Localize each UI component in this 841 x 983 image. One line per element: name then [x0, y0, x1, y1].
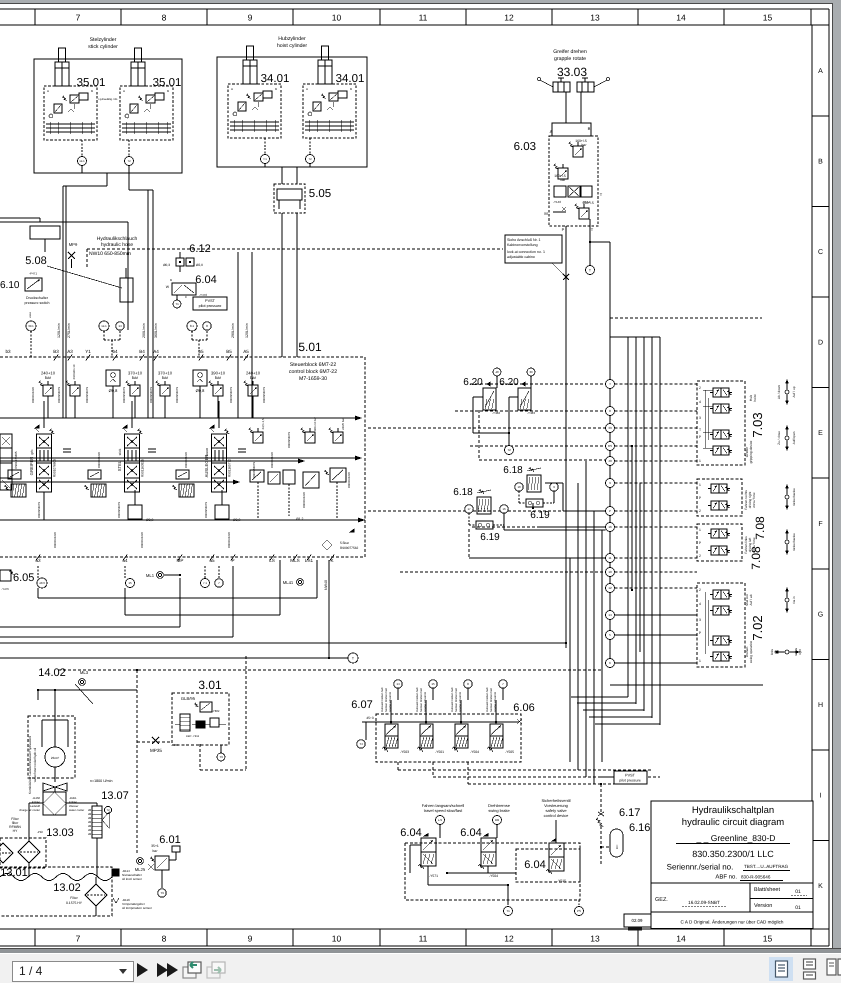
svg-text:7.08: 7.08	[753, 516, 767, 540]
svg-text:B: B	[275, 87, 277, 91]
svg-text:rückw./backw.: rückw./backw.	[792, 533, 796, 552]
svg-text:Greifer schwimm: Greifer schwimm	[424, 691, 427, 712]
svg-text:water/intercooler/hydr.oil: water/intercooler/hydr.oil	[33, 747, 37, 782]
svg-text:-Y505: -Y505	[505, 750, 514, 754]
svg-text:23cm³: 23cm³	[51, 756, 59, 760]
svg-text:200L/min: 200L/min	[142, 323, 146, 338]
svg-text:R900958079: R900958079	[204, 502, 208, 518]
svg-text:7: 7	[76, 13, 81, 23]
svg-text:13.02: 13.02	[53, 882, 81, 894]
svg-text:Filter: Filter	[70, 896, 78, 900]
svg-text:8: 8	[162, 13, 167, 23]
svg-text:Greifer schwimm: Greifer schwimm	[389, 691, 392, 712]
svg-text:T9: T9	[160, 891, 164, 895]
svg-text:T2: T2	[308, 157, 312, 161]
svg-text:T2: T2	[106, 808, 110, 812]
svg-text:Seriennr./serial no.: Seriennr./serial no.	[667, 863, 734, 872]
svg-text:160+/-5: 160+/-5	[582, 201, 594, 205]
svg-text:Senken Drehen halt: Senken Drehen halt	[455, 688, 458, 712]
svg-text:310/340+10: 310/340+10	[72, 364, 76, 379]
svg-text:14: 14	[676, 934, 686, 944]
svg-text:15: 15	[128, 581, 132, 585]
svg-text:6.03: 6.03	[514, 141, 536, 153]
svg-text:grapple rotate: grapple rotate	[554, 56, 586, 62]
svg-text:R900958079: R900958079	[262, 387, 266, 403]
svg-text:R900063245: R900063245	[53, 532, 57, 548]
svg-text:R900063245: R900063245	[97, 452, 101, 468]
svg-text:14: 14	[676, 13, 686, 23]
svg-text:B: B	[91, 89, 93, 93]
svg-text:39: 39	[529, 370, 533, 374]
svg-text:7.08: 7.08	[749, 546, 763, 570]
svg-text:PS: PS	[577, 909, 581, 913]
svg-text:R900077562: R900077562	[340, 546, 358, 550]
svg-text:5.01: 5.01	[298, 340, 322, 354]
svg-text:17: 17	[467, 507, 471, 511]
svg-text:C: C	[818, 249, 823, 256]
svg-text:-Y476: -Y476	[199, 293, 207, 297]
svg-text:bar: bar	[561, 178, 567, 182]
svg-text:01: 01	[795, 889, 801, 895]
svg-text:swing brake: swing brake	[488, 808, 510, 813]
svg-text:-Y503: -Y503	[400, 750, 409, 754]
svg-text:R900958079: R900958079	[117, 502, 121, 518]
svg-text:7.03: 7.03	[750, 412, 765, 437]
svg-text:7.02: 7.02	[750, 615, 765, 640]
svg-text:hoist cylinder: hoist cylinder	[277, 43, 308, 49]
svg-text:A: A	[818, 68, 823, 75]
svg-text:R900063245: R900063245	[227, 532, 231, 548]
svg-text:_ _ Greenline_830-D: _ _ Greenline_830-D	[696, 833, 776, 843]
svg-text:DB: DB	[495, 818, 499, 822]
svg-text:T: T	[609, 382, 611, 386]
svg-text:Hubwerk Heben halt: Hubwerk Heben halt	[451, 687, 454, 712]
svg-text:PVST: PVST	[205, 299, 216, 303]
svg-text:R900063245: R900063245	[347, 472, 351, 488]
svg-text:GREIFER: GREIFER	[29, 457, 34, 476]
svg-text:bar: bar	[132, 375, 139, 380]
svg-text:Kombikühler Ladeluft/Wasser/H: Kombikühler Ladeluft/Wasser/Hydrauliköl	[28, 736, 32, 794]
svg-text:LS1: LS1	[305, 558, 314, 563]
svg-text:15: 15	[431, 682, 435, 686]
svg-text:MP: MP	[177, 558, 184, 563]
svg-text:4: 4	[699, 602, 701, 606]
svg-text:oil level sensor: oil level sensor	[122, 877, 142, 881]
svg-text:pilot pressure: pilot pressure	[619, 779, 641, 783]
svg-text:-Y501: -Y501	[435, 750, 444, 754]
svg-text:6.20: 6.20	[499, 377, 519, 388]
svg-text:6.18: 6.18	[503, 465, 523, 476]
svg-text:Ø1,2: Ø1,2	[296, 517, 303, 521]
svg-text:E: E	[818, 430, 823, 437]
svg-text:Ø2,0: Ø2,0	[196, 263, 203, 267]
svg-text:Ab / down: Ab / down	[777, 385, 781, 399]
svg-text:Greifer schwimm: Greifer schwimm	[494, 691, 497, 712]
svg-text:TBST....U..AUFTRAG: TBST....U..AUFTRAG	[744, 864, 789, 869]
svg-text:R900958079: R900958079	[37, 502, 41, 518]
svg-text:Version: Version	[754, 903, 772, 909]
svg-text:35+1: 35+1	[151, 844, 159, 848]
svg-text:control device: control device	[544, 813, 569, 818]
svg-text:L-S: L-S	[438, 818, 442, 822]
svg-text:16.02.09-SNBT: 16.02.09-SNBT	[688, 900, 720, 905]
svg-text:5.5bar: 5.5bar	[340, 541, 350, 545]
svg-text:Y1: Y1	[85, 349, 91, 354]
svg-text:380+10 bar: 380+10 bar	[313, 417, 317, 431]
svg-text:2: 2	[699, 554, 701, 558]
svg-text:ML25: ML25	[135, 867, 146, 872]
svg-text:Kabinenverstellung: Kabinenverstellung	[507, 243, 538, 247]
svg-text:n=1800 U/min: n=1800 U/min	[90, 779, 112, 783]
svg-text:Da in: Da in	[792, 596, 796, 603]
svg-text:Druckschalter: Druckschalter	[26, 296, 49, 300]
svg-text:13: 13	[590, 13, 600, 23]
svg-text:11: 11	[419, 934, 428, 944]
svg-text:39: 39	[608, 426, 612, 430]
svg-text:6.16: 6.16	[629, 822, 650, 834]
svg-text:R900958079: R900958079	[229, 387, 233, 403]
svg-text:9: 9	[248, 934, 253, 944]
svg-text:40: 40	[608, 459, 612, 463]
svg-text:Senken Drehen halt: Senken Drehen halt	[385, 688, 388, 712]
svg-text:14.02: 14.02	[38, 667, 66, 679]
svg-text:grb: grb	[30, 449, 34, 454]
svg-text:Ø0,8: Ø0,8	[146, 518, 153, 522]
svg-text:120L/min: 120L/min	[57, 323, 61, 338]
svg-text:830.350.2300/1 LLC: 830.350.2300/1 LLC	[692, 849, 774, 859]
svg-text:F: F	[818, 521, 822, 528]
svg-text:14: 14	[608, 613, 612, 617]
svg-text:PVST: PVST	[625, 774, 636, 778]
svg-text:Auf / up: Auf / up	[792, 386, 796, 397]
svg-text:-P471: -P471	[29, 272, 37, 276]
svg-text:13.03: 13.03	[46, 827, 74, 839]
svg-text:R901165772: R901165772	[228, 459, 232, 477]
svg-text:Hydraulikschaltplan: Hydraulikschaltplan	[692, 805, 774, 816]
svg-text:A3: A3	[67, 349, 73, 354]
svg-text:RS: RS	[608, 444, 612, 448]
svg-text:vorw./ forw.: vorw./ forw.	[752, 492, 756, 508]
svg-text:-Y571: -Y571	[429, 874, 438, 878]
svg-text:Siehe Anschluß Nr. 1: Siehe Anschluß Nr. 1	[507, 238, 541, 242]
svg-text:B: B	[167, 89, 169, 93]
svg-text:275L/min: 275L/min	[67, 323, 71, 338]
svg-text:T9: T9	[219, 755, 223, 759]
svg-text:34.01: 34.01	[261, 73, 290, 85]
svg-text:ML41: ML41	[283, 580, 294, 585]
svg-text:33.03: 33.03	[557, 65, 587, 79]
svg-text:6.04: 6.04	[460, 827, 481, 839]
svg-text:10 l: 10 l	[615, 844, 619, 849]
svg-text:R901076805: R901076805	[53, 459, 57, 477]
svg-text:1: 1	[699, 459, 701, 463]
svg-text:8: 8	[162, 934, 167, 944]
svg-text:rückw./backw.: rückw./backw.	[792, 488, 796, 507]
svg-text:T1: T1	[175, 302, 179, 306]
svg-text:Ø0,3: Ø0,3	[163, 263, 170, 267]
svg-text:gripping device: gripping device	[749, 440, 753, 463]
svg-text:7.1: 7.1	[203, 581, 207, 585]
svg-text:T: T	[699, 428, 701, 432]
svg-text:14: 14	[396, 682, 400, 686]
svg-text:pressure switch: pressure switch	[25, 301, 50, 305]
svg-text:6.06: 6.06	[513, 702, 534, 714]
svg-text:-Y483: -Y483	[527, 411, 535, 415]
svg-text:16: 16	[502, 507, 506, 511]
svg-text:GLB/95: GLB/95	[181, 696, 196, 701]
svg-text:15: 15	[763, 13, 773, 23]
svg-text:AUSLEGER: AUSLEGER	[204, 455, 209, 478]
svg-text:GEZ.: GEZ.	[655, 897, 668, 903]
svg-text:K: K	[818, 883, 823, 890]
svg-text:40: 40	[495, 370, 499, 374]
svg-text:MLS: MLS	[290, 558, 299, 563]
svg-text:6.01: 6.01	[159, 834, 180, 846]
svg-text:B5: B5	[226, 349, 232, 354]
svg-text:STEL: STEL	[117, 460, 122, 471]
svg-text:3: 3	[699, 416, 701, 420]
svg-text:R900958079: R900958079	[149, 387, 153, 403]
svg-text:A5: A5	[243, 349, 249, 354]
svg-text:boom: boom	[205, 448, 209, 457]
svg-text:R900063245: R900063245	[140, 532, 144, 548]
svg-text:290L/min: 290L/min	[231, 323, 235, 338]
svg-text:45+3: 45+3	[366, 716, 373, 720]
svg-text:B: B	[350, 87, 352, 91]
svg-text:DBC -Y804: DBC -Y804	[186, 735, 200, 738]
svg-text:Auf / ab: Auf / ab	[749, 594, 753, 605]
svg-text:A: A	[231, 87, 233, 91]
svg-text:6.04: 6.04	[195, 274, 216, 286]
svg-text:H: H	[818, 702, 823, 709]
svg-text:11: 11	[419, 13, 428, 23]
svg-text:b3: b3	[5, 349, 11, 354]
svg-text:hoist: hoist	[753, 394, 757, 401]
svg-text:R900063245: R900063245	[302, 492, 306, 508]
svg-text:bar: bar	[162, 375, 169, 380]
svg-text:-Y482: -Y482	[492, 411, 500, 415]
svg-text:13: 13	[590, 934, 600, 944]
svg-text:A: A	[47, 89, 49, 93]
svg-text:A: A	[123, 89, 125, 93]
svg-text:Greifer schwimm: Greifer schwimm	[459, 691, 462, 712]
svg-text:02.09: 02.09	[632, 918, 644, 923]
svg-text:MP9: MP9	[69, 242, 78, 247]
svg-text:2: 2	[699, 588, 701, 592]
svg-text:6.05: 6.05	[13, 572, 34, 584]
svg-text:Steuerblock 6M7-22: Steuerblock 6M7-22	[290, 362, 337, 368]
svg-text:pilot pressure: pilot pressure	[199, 304, 222, 308]
svg-text:3.01: 3.01	[198, 678, 222, 692]
svg-text:-Y504: -Y504	[470, 750, 479, 754]
svg-text:B4: B4	[139, 349, 145, 354]
svg-text:35.01: 35.01	[77, 77, 106, 89]
svg-text:Stelzylinder: Stelzylinder	[90, 37, 117, 43]
svg-text:HY: HY	[13, 829, 18, 833]
svg-text:ML3: ML3	[80, 670, 89, 675]
svg-text:Auf/open: Auf/open	[792, 431, 796, 444]
svg-text:R900063245: R900063245	[270, 452, 274, 468]
svg-text:Senken Drehen halt: Senken Drehen halt	[420, 688, 423, 712]
svg-text:14.1: 14.1	[79, 159, 85, 163]
svg-text:R900958079: R900958079	[85, 387, 89, 403]
svg-text:6.19: 6.19	[480, 532, 500, 543]
svg-text:Ø0,8: Ø0,8	[233, 518, 240, 522]
svg-text:B: B	[588, 126, 591, 131]
svg-text:13.07: 13.07	[101, 790, 129, 802]
svg-text:Hubwerk Heben halt: Hubwerk Heben halt	[486, 687, 489, 712]
svg-text:-Y476: -Y476	[1, 587, 9, 591]
svg-text:D: D	[818, 340, 823, 347]
svg-text:valve: valve	[29, 311, 32, 318]
svg-text:6.10: 6.10	[0, 280, 20, 291]
svg-text:R900958079: R900958079	[175, 387, 179, 403]
svg-text:swing operation: swing operation	[749, 641, 753, 664]
svg-text:R901163825: R901163825	[141, 459, 145, 477]
svg-text:water cooler: water cooler	[69, 808, 84, 812]
svg-text:10: 10	[608, 570, 612, 574]
svg-text:Hubwerk Heben halt: Hubwerk Heben halt	[381, 687, 384, 712]
svg-text:2: 2	[699, 386, 701, 390]
svg-text:1: 1	[699, 659, 701, 663]
svg-text:A: A	[550, 129, 553, 134]
svg-text:14.1: 14.1	[101, 324, 107, 328]
svg-text:01: 01	[795, 905, 801, 911]
svg-text:bar: bar	[215, 375, 222, 380]
svg-text:b4: b4	[112, 349, 118, 354]
svg-text:T1: T1	[506, 909, 510, 913]
svg-text:bar: bar	[153, 849, 159, 853]
svg-text:6.04: 6.04	[400, 827, 421, 839]
svg-text:7: 7	[76, 934, 81, 944]
svg-text:5.05: 5.05	[309, 188, 331, 200]
svg-text:R900063245: R900063245	[184, 452, 188, 468]
svg-text:6.18: 6.18	[453, 487, 473, 498]
svg-text:ABF no.: ABF no.	[715, 874, 737, 881]
svg-text:11: 11	[608, 556, 611, 560]
svg-text:40.3: 40.3	[39, 581, 45, 585]
svg-text:B: B	[170, 278, 172, 282]
svg-text:MP35: MP35	[150, 748, 162, 753]
svg-text:1: 1	[699, 483, 701, 487]
svg-text:14: 14	[118, 324, 122, 328]
svg-text:16: 16	[608, 525, 612, 529]
svg-text:R900958079: R900958079	[57, 387, 61, 403]
svg-text:P: P	[609, 509, 611, 513]
svg-text:4: 4	[699, 400, 701, 404]
svg-text:15: 15	[763, 934, 773, 944]
svg-text:Blatt/sheet: Blatt/sheet	[754, 887, 780, 893]
svg-text:12: 12	[608, 586, 612, 590]
svg-text:6.17: 6.17	[619, 807, 640, 819]
svg-text:3: 3	[699, 618, 701, 622]
svg-text:360L/min: 360L/min	[154, 323, 158, 338]
svg-text:R900958079: R900958079	[122, 387, 126, 403]
svg-text:bar: bar	[250, 375, 257, 380]
svg-text:5.08: 5.08	[25, 255, 46, 267]
svg-text:-Y802: -Y802	[212, 709, 220, 713]
svg-text:P: P	[562, 227, 565, 232]
svg-text:0.1575 HY: 0.1575 HY	[66, 901, 83, 905]
svg-text:10: 10	[332, 934, 342, 944]
svg-text:b5: b5	[198, 349, 204, 354]
svg-text:10: 10	[517, 485, 521, 489]
svg-text:stick cylinder: stick cylinder	[88, 44, 118, 50]
svg-text:bar: bar	[45, 375, 52, 380]
svg-text:T.1: T.1	[263, 157, 267, 161]
svg-text:6.12: 6.12	[189, 243, 210, 255]
svg-text:-Y515: -Y515	[557, 879, 566, 883]
svg-text:34.01: 34.01	[336, 73, 365, 85]
svg-text:M7-1659-30: M7-1659-30	[299, 376, 327, 382]
svg-text:oil temperature sensor: oil temperature sensor	[122, 906, 152, 910]
svg-text:adjustable cabine: adjustable cabine	[507, 255, 535, 259]
svg-text:T2: T2	[507, 448, 511, 452]
svg-text:Hubwerk Heben halt: Hubwerk Heben halt	[416, 687, 419, 712]
svg-text:6.04: 6.04	[524, 859, 545, 871]
svg-text:C A D Original. Änderungen: C A D Original. Änderungen nur über CAD …	[681, 920, 784, 925]
svg-text:120L/min: 120L/min	[245, 323, 249, 338]
svg-text:T4: T4	[359, 742, 363, 746]
svg-text:12: 12	[504, 934, 514, 944]
svg-text:I: I	[820, 792, 822, 799]
svg-text:9: 9	[248, 13, 253, 23]
svg-text:A: A	[306, 87, 308, 91]
svg-text:8.1: 8.1	[190, 324, 195, 328]
svg-text:240/5 bar: 240/5 bar	[341, 418, 345, 430]
svg-text:hydraulic circuit diagram: hydraulic circuit diagram	[682, 817, 785, 828]
svg-text:34,5+1,5: 34,5+1,5	[261, 418, 265, 429]
svg-text:bar: bar	[582, 143, 588, 147]
svg-text:-P1h: -P1h	[37, 830, 44, 834]
svg-text:B: B	[818, 159, 823, 166]
svg-text:-Y146: -Y146	[553, 200, 561, 204]
svg-text:hydraulic hose: hydraulic hose	[101, 242, 133, 248]
svg-text:R901076805: R901076805	[14, 451, 18, 469]
svg-text:6.20: 6.20	[463, 377, 483, 388]
svg-text:Zu / close: Zu / close	[777, 431, 781, 445]
svg-text:10: 10	[332, 13, 342, 23]
svg-text:M: M	[544, 211, 547, 216]
svg-text:travel speed slow/fast: travel speed slow/fast	[424, 808, 463, 813]
svg-text:Senken Drehen halt: Senken Drehen halt	[490, 688, 493, 712]
svg-text:Hubzylinder: Hubzylinder	[278, 36, 306, 42]
svg-text:look at connection no. 1: look at connection no. 1	[507, 250, 545, 254]
svg-text:1: 1	[699, 528, 701, 532]
svg-text:G: G	[818, 611, 823, 618]
svg-text:right: right	[798, 649, 802, 655]
svg-text:T2: T2	[127, 159, 131, 163]
svg-text:ML1: ML1	[146, 573, 155, 578]
svg-text:stick: stick	[118, 448, 122, 455]
svg-text:control block 6M7-22: control block 6M7-22	[289, 369, 337, 375]
svg-text:830-R-905646: 830-R-905646	[741, 875, 771, 880]
svg-text:A4: A4	[153, 349, 159, 354]
svg-text:NW10 650-850mm: NW10 650-850mm	[89, 251, 131, 257]
svg-text:6.07: 6.07	[351, 699, 372, 711]
svg-text:39.1: 39.1	[28, 324, 34, 328]
svg-text:Greifer drehen: Greifer drehen	[553, 49, 587, 55]
svg-text:B3: B3	[53, 349, 59, 354]
svg-text:Hydraulikltg. NG: Hydraulikltg. NG	[99, 98, 118, 101]
svg-text:12: 12	[504, 13, 514, 23]
svg-text:35.01: 35.01	[153, 77, 182, 89]
svg-text:-Y504: -Y504	[489, 874, 498, 878]
svg-text:charge air cooler: charge air cooler	[19, 808, 40, 812]
svg-text:NW40: NW40	[324, 580, 328, 590]
svg-text:2: 2	[699, 509, 701, 513]
svg-text:6.19: 6.19	[530, 510, 550, 521]
